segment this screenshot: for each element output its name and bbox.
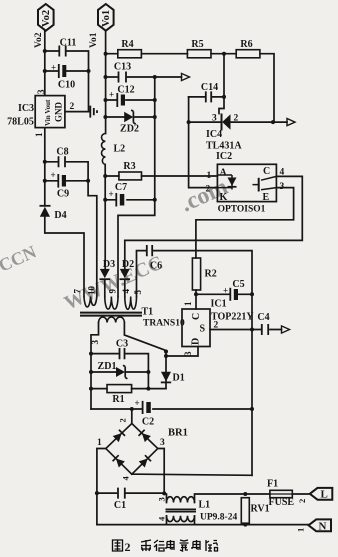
svg-text:L1: L1 xyxy=(199,500,211,511)
svg-text:C1: C1 xyxy=(114,500,126,511)
wire D2 to winding pin 4 xyxy=(124,240,126,296)
wire D1 vertical xyxy=(165,351,167,389)
svg-text:C5: C5 xyxy=(232,279,244,290)
svg-text:+: + xyxy=(51,63,56,73)
svg-text:+: + xyxy=(51,170,56,180)
capacitor C9 polarized xyxy=(57,174,59,188)
svg-text:2: 2 xyxy=(125,540,131,554)
wire R2 stub to pin1 xyxy=(195,290,197,309)
choke L1 core xyxy=(166,509,197,511)
wire opto pin4 route xyxy=(125,176,302,240)
svg-text:C13: C13 xyxy=(114,62,131,73)
ground at IC3 pin2 xyxy=(90,106,97,118)
svg-text:D2: D2 xyxy=(122,259,134,270)
wire C9 branch xyxy=(45,180,88,182)
svg-text:2: 2 xyxy=(70,102,75,112)
wire Vo1 rail mid xyxy=(104,165,106,269)
arrow at C4 line xyxy=(282,326,290,333)
svg-text:IC3: IC3 xyxy=(18,103,34,114)
svg-text:3: 3 xyxy=(90,340,100,345)
fuse F1 xyxy=(270,490,292,497)
svg-text:3: 3 xyxy=(36,89,46,94)
caption glyph yuan xyxy=(180,540,189,551)
svg-text:C8: C8 xyxy=(56,147,68,158)
svg-text:A: A xyxy=(220,168,228,179)
svg-text:Vo2: Vo2 xyxy=(34,32,44,48)
opto phototransistor xyxy=(258,178,260,192)
svg-text:4: 4 xyxy=(121,289,131,294)
svg-text:RV1: RV1 xyxy=(251,504,270,515)
svg-text:GND: GND xyxy=(54,102,64,123)
capacitor C11 xyxy=(59,46,65,57)
svg-text:FUSE: FUSE xyxy=(269,497,295,508)
svg-text:R4: R4 xyxy=(121,39,133,50)
svg-text:3: 3 xyxy=(157,497,167,501)
bridge diode bottom-left xyxy=(113,455,125,467)
optocoupler IC2 box xyxy=(217,164,276,201)
IC3 78L05 box xyxy=(35,96,65,128)
svg-text:2: 2 xyxy=(206,185,211,195)
svg-text:4: 4 xyxy=(280,168,285,178)
arrow at TL431 line xyxy=(287,119,295,126)
svg-text:2: 2 xyxy=(297,499,307,503)
svg-text:C4: C4 xyxy=(257,312,269,323)
wire bridge left vertex out xyxy=(97,449,106,525)
svg-text:1: 1 xyxy=(296,528,306,532)
svg-text:C11: C11 xyxy=(60,38,77,49)
wire snubber C3 xyxy=(91,354,148,389)
capacitor C5 polarized xyxy=(229,288,231,301)
wire Vo1 rail to winding pin 9 xyxy=(104,280,106,297)
svg-text:C3: C3 xyxy=(116,339,128,350)
wire Vo2 rail top xyxy=(44,31,46,96)
caption glyph xi xyxy=(141,540,151,551)
svg-text:E: E xyxy=(263,192,270,203)
IC1 TOP221Y box xyxy=(182,309,210,347)
wire opto pin3 route xyxy=(196,188,294,258)
svg-text:D3: D3 xyxy=(103,259,115,270)
wire bridge bottom to C2 minus xyxy=(132,474,252,475)
wire R5R6 node down to TL431 ref xyxy=(219,54,224,114)
svg-text:3: 3 xyxy=(212,114,217,124)
diode D3 xyxy=(100,269,110,278)
resistor R2 xyxy=(192,258,200,290)
wire TOP221 pin2 S row with C4 xyxy=(210,329,282,331)
wire R1 row xyxy=(91,388,166,390)
bridge diode bottom-right xyxy=(139,455,151,467)
svg-text:3: 3 xyxy=(280,182,285,192)
svg-text:OPTOISO1: OPTOISO1 xyxy=(218,205,266,215)
wire choke top right to fuse xyxy=(195,494,310,503)
wire bridge right vertex down to choke xyxy=(158,449,164,494)
diode D2 xyxy=(120,269,130,278)
svg-text:TRANS10: TRANS10 xyxy=(143,319,185,329)
svg-text:C10: C10 xyxy=(58,80,75,91)
wire TL431 row xyxy=(189,121,287,123)
svg-text:L2: L2 xyxy=(114,144,126,155)
svg-text:C2: C2 xyxy=(142,417,154,428)
svg-text:N: N xyxy=(319,520,327,532)
capacitor C8 xyxy=(59,156,66,167)
svg-text:4: 4 xyxy=(121,476,131,481)
svg-text:Vo1: Vo1 xyxy=(101,10,112,27)
wire C1 row xyxy=(97,492,164,494)
svg-text:3: 3 xyxy=(183,351,193,356)
shunt regulator IC4 TL431A xyxy=(221,114,223,131)
svg-text:1: 1 xyxy=(207,171,212,181)
transformer T1 primary winding xyxy=(99,317,125,323)
svg-text:R2: R2 xyxy=(205,269,217,280)
svg-text:CCN: CCN xyxy=(0,242,39,276)
svg-text:R3: R3 xyxy=(123,161,135,172)
svg-text:3: 3 xyxy=(160,438,165,448)
svg-text:1: 1 xyxy=(97,438,102,448)
choke L1 bottom winding xyxy=(167,516,195,522)
caption glyph dian xyxy=(166,540,175,549)
wire primary right stub diagonal to drain xyxy=(124,323,166,351)
resistor R1 xyxy=(107,385,132,393)
wire C11 branch xyxy=(45,51,89,112)
svg-text:+: + xyxy=(109,189,114,199)
wire C5 row xyxy=(196,293,252,295)
wire feedback vertical x154.75 xyxy=(118,77,155,297)
wire bridge top riser xyxy=(131,409,133,424)
svg-text:BR1: BR1 xyxy=(168,428,188,439)
wire DC plus row with C2 xyxy=(91,408,252,410)
svg-text:1: 1 xyxy=(183,301,193,306)
svg-text:2: 2 xyxy=(234,114,239,124)
diode D1 xyxy=(161,372,171,382)
wire snubber ZD1 xyxy=(91,371,148,373)
wire opto K vertical xyxy=(189,97,218,188)
resistor R6 xyxy=(236,50,260,58)
wire R3 row to opto pin1 xyxy=(105,175,217,177)
svg-text:TL431A: TL431A xyxy=(206,141,242,152)
inductor L2 xyxy=(102,134,106,165)
capacitor C13 xyxy=(119,72,127,83)
transformer T1 secondary winding 7-10 xyxy=(84,297,97,307)
wire Vo1 rail top xyxy=(105,31,107,134)
terminal L xyxy=(310,488,333,500)
svg-text:2: 2 xyxy=(118,418,128,422)
wire choke top left stub xyxy=(164,493,166,502)
svg-text:T1: T1 xyxy=(142,307,154,318)
svg-text:C14: C14 xyxy=(201,82,218,93)
zener ZD1 xyxy=(116,367,125,377)
caption glyph tu xyxy=(113,540,123,551)
capacitor C2 polarized xyxy=(142,401,144,414)
capacitor C14 xyxy=(206,91,211,102)
bridge BR1 diamond xyxy=(106,424,158,475)
transformer T1 secondary winding 4-5 xyxy=(125,297,137,310)
wire N line bottom xyxy=(97,524,309,526)
svg-text:C: C xyxy=(263,166,270,177)
svg-text:+: + xyxy=(223,286,228,296)
svg-text:C6: C6 xyxy=(150,261,162,272)
wire C6 row xyxy=(137,251,253,476)
svg-text:7: 7 xyxy=(73,289,83,294)
svg-text:C7: C7 xyxy=(115,182,127,193)
svg-text:IC2: IC2 xyxy=(216,151,232,162)
svg-text:K: K xyxy=(220,192,228,203)
varistor RV1 xyxy=(241,498,249,524)
capacitor C12 polarized xyxy=(116,93,118,107)
svg-text:L: L xyxy=(321,489,328,501)
svg-text:+: + xyxy=(135,398,140,408)
wire C8 branch xyxy=(45,162,97,297)
diode D4 xyxy=(40,205,51,207)
capacitor C3 xyxy=(120,348,125,359)
wire IC3 pin2 to ground xyxy=(65,111,90,113)
resistor R3 xyxy=(119,172,142,180)
svg-text:R1: R1 xyxy=(112,394,124,405)
caption glyph lu xyxy=(206,540,218,551)
opto LED xyxy=(217,175,232,190)
wire C10 branch xyxy=(45,70,89,72)
capacitor C6 xyxy=(147,245,152,256)
svg-text:78L05: 78L05 xyxy=(7,117,34,128)
bridge diode top-left xyxy=(113,430,125,442)
choke L1 top winding xyxy=(167,497,195,503)
svg-text:C: C xyxy=(191,313,202,320)
svg-text:10: 10 xyxy=(87,286,97,296)
capacitor C7 polarized xyxy=(115,193,117,207)
wire C12 row xyxy=(106,99,155,101)
svg-text:D1: D1 xyxy=(173,373,185,384)
svg-text:S: S xyxy=(200,324,206,335)
transformer T1 secondary winding 9 xyxy=(105,297,118,310)
wire TOP221 pin3 route xyxy=(166,347,198,357)
capacitor C10 polarized xyxy=(58,64,60,78)
wire ZD2 row xyxy=(105,116,154,118)
svg-text:R5: R5 xyxy=(191,39,203,50)
svg-text:C12: C12 xyxy=(117,85,134,96)
svg-text:1: 1 xyxy=(34,132,44,137)
svg-text:F1: F1 xyxy=(267,479,278,490)
caption glyph dian2 xyxy=(192,540,201,549)
wire Vo2 rail mid (IC3 pin1 to D4) xyxy=(44,128,46,206)
zener ZD2 xyxy=(124,112,133,122)
svg-text:C9: C9 xyxy=(57,189,69,200)
wire C14 loop xyxy=(189,96,224,98)
svg-text:4: 4 xyxy=(157,516,167,521)
terminal N xyxy=(309,519,332,531)
terminal Vo1 xyxy=(98,4,114,31)
resistor R4 xyxy=(118,50,142,58)
arrow at C13 line xyxy=(182,73,190,80)
svg-text:IC4: IC4 xyxy=(206,129,222,140)
capacitor C4 xyxy=(262,324,268,335)
svg-text:Vo2: Vo2 xyxy=(41,10,52,27)
svg-text:Vin Vout: Vin Vout xyxy=(44,99,52,126)
bridge diode top-right xyxy=(139,430,151,442)
svg-text:R6: R6 xyxy=(240,39,252,50)
svg-text:ZD1: ZD1 xyxy=(98,361,117,372)
capacitor C1 xyxy=(118,488,125,499)
transformer T1 core xyxy=(80,313,142,316)
svg-text:5: 5 xyxy=(133,290,143,295)
caption glyph tong xyxy=(154,540,165,551)
svg-text:ZD2: ZD2 xyxy=(120,124,139,135)
wire Vo2 rail bottom to transformer pin 7 xyxy=(45,217,84,296)
wire C13 row with arrow stub xyxy=(106,76,182,78)
wire choke bottom stubs xyxy=(167,516,195,525)
svg-text:2: 2 xyxy=(214,321,219,331)
svg-text:+: + xyxy=(109,90,114,100)
svg-text:D4: D4 xyxy=(54,210,66,221)
wire C7 row xyxy=(105,199,155,201)
resistor R5 xyxy=(187,50,211,58)
svg-text:Vo1: Vo1 xyxy=(89,32,99,48)
wire primary left stub xyxy=(91,323,99,410)
svg-text:9: 9 xyxy=(108,289,118,294)
svg-text:D: D xyxy=(191,338,202,345)
wire top row R4 R5 R6 xyxy=(106,54,274,122)
terminal Vo2 xyxy=(38,4,54,31)
svg-text:IC1: IC1 xyxy=(211,299,227,310)
svg-text:UP9.8-24: UP9.8-24 xyxy=(200,513,237,523)
